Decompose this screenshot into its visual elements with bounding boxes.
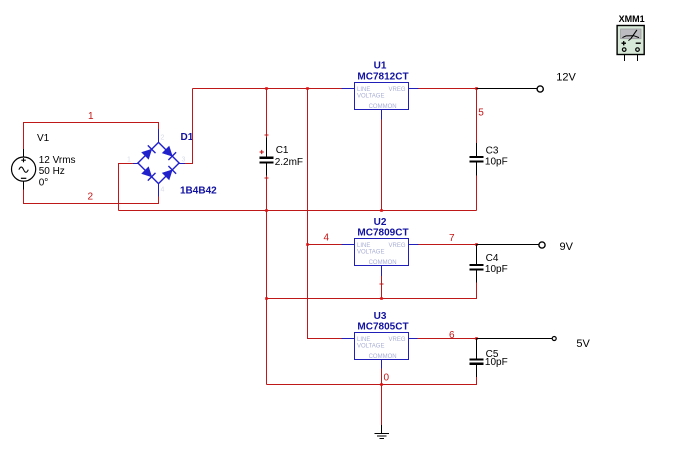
junction node0 U1 common at rail: [380, 209, 383, 212]
wire ground drop: [381, 385, 383, 426]
terminal 12V: [537, 86, 543, 92]
capacitor C5: [470, 339, 484, 378]
svg-text:50 Hz: 50 Hz: [39, 166, 65, 177]
svg-text:2: 2: [161, 135, 165, 142]
svg-text:COMMON: COMMON: [369, 260, 397, 266]
diode left-top of bridge D1: [142, 145, 156, 159]
bridge rectifier D1: [133, 129, 185, 197]
svg-text:XMM1: XMM1: [619, 14, 645, 24]
wire node 4 branch to U2 input: [308, 244, 342, 246]
wire 12V output black: [477, 88, 538, 90]
svg-text:VOLTAGE: VOLTAGE: [357, 344, 384, 350]
svg-text:1B4B42: 1B4B42: [180, 186, 217, 197]
svg-text:1: 1: [88, 111, 94, 122]
svg-text:12 Vrms: 12 Vrms: [39, 155, 76, 166]
svg-text:7: 7: [449, 233, 455, 244]
svg-text:3: 3: [182, 157, 186, 164]
svg-text:U2: U2: [374, 217, 387, 228]
svg-text:C1: C1: [276, 145, 289, 156]
diode bottom-right of bridge D1: [162, 166, 176, 180]
svg-text:5: 5: [478, 108, 484, 119]
wire node 1: [24, 123, 159, 149]
svg-text:VOLTAGE: VOLTAGE: [357, 94, 384, 100]
wire ground rail node 0: [267, 377, 477, 385]
svg-text:4: 4: [324, 232, 330, 243]
wire top rail unregulated DC: [193, 88, 342, 90]
wire C1 top lead: [266, 89, 268, 138]
svg-text:VREG: VREG: [388, 87, 405, 93]
svg-text:V1: V1: [37, 133, 50, 144]
terminal 5V: [552, 337, 556, 341]
svg-text:12V: 12V: [556, 72, 576, 84]
wire common rail node 0: [119, 210, 477, 212]
wire node 3 vertical to U2 U3 inputs: [308, 89, 342, 339]
svg-text:VREG: VREG: [388, 337, 405, 343]
voltage regulator U2: [342, 239, 419, 277]
multimeter XMM1: [617, 26, 644, 62]
svg-text:D1: D1: [181, 132, 194, 143]
voltage regulator U3: [342, 333, 418, 369]
wire C1 bottom lead: [266, 175, 268, 210]
svg-text:LINE: LINE: [357, 87, 370, 93]
wire U3 output node 6: [418, 338, 477, 340]
junction node4 at U2 input branch: [306, 243, 309, 246]
terminal 9V: [539, 242, 545, 248]
svg-text:C4: C4: [486, 253, 499, 264]
svg-text:U1: U1: [374, 61, 387, 72]
wire U1 output node 5: [419, 88, 477, 90]
svg-text:LINE: LINE: [357, 243, 370, 249]
svg-text:6: 6: [449, 330, 455, 341]
svg-text:9V: 9V: [560, 241, 574, 253]
svg-text:MC7809CT: MC7809CT: [357, 227, 408, 238]
wire 9V output black: [477, 244, 539, 246]
junction node6 at C5 top: [475, 337, 478, 340]
svg-text:10pF: 10pF: [485, 157, 508, 168]
capacitor C1: [260, 138, 274, 176]
wire U1 common pin to rail: [381, 120, 383, 211]
svg-text:COMMON: COMMON: [369, 354, 397, 360]
svg-text:5V: 5V: [576, 338, 590, 350]
wire bridge right to top rail riser: [185, 89, 193, 164]
svg-text:0°: 0°: [39, 178, 49, 189]
wire node 0 vertical C1 column: [266, 211, 268, 385]
wire U2 common pin lead: [381, 276, 383, 299]
svg-text:VREG: VREG: [388, 243, 405, 249]
svg-text:0: 0: [384, 373, 390, 384]
junction node7 at C4 top: [475, 243, 478, 246]
svg-text:1: 1: [127, 157, 131, 164]
diode top-right of bridge D1: [162, 146, 176, 160]
svg-text:COMMON: COMMON: [369, 104, 397, 110]
svg-text:C3: C3: [486, 145, 499, 156]
wire U2 output node 7: [419, 244, 477, 246]
junction node3 at mid vertical: [306, 87, 309, 90]
wire C3 top lead node 5: [476, 89, 478, 143]
svg-text:LINE: LINE: [357, 337, 370, 343]
wire endpoint tick U2 common: [380, 283, 384, 285]
svg-text:4: 4: [161, 187, 165, 194]
wire endpoint tick C1 bottom: [265, 177, 269, 179]
ground: [375, 425, 390, 438]
junction node0 U2 common at C4 rail: [380, 297, 383, 300]
junction node0 ground drop at rail: [380, 383, 383, 386]
svg-text:VOLTAGE: VOLTAGE: [357, 250, 384, 256]
svg-text:10pF: 10pF: [485, 357, 508, 368]
wire node 0 from bridge left: [119, 164, 134, 211]
svg-text:2: 2: [88, 192, 94, 203]
svg-text:10pF: 10pF: [485, 264, 508, 275]
capacitor C3: [470, 143, 484, 176]
wire U3 common pin lead node 0: [381, 369, 383, 385]
junction node0 C1 column at common rail: [265, 209, 268, 212]
svg-text:MC7812CT: MC7812CT: [357, 71, 408, 82]
wire endpoint tick C1 top: [265, 134, 269, 136]
capacitor C4: [470, 245, 484, 283]
wire C4 bottom rail node 0: [267, 283, 477, 299]
svg-text:U3: U3: [374, 311, 387, 322]
wire node 2: [24, 190, 159, 204]
junction node3 at C1 top: [265, 87, 268, 90]
diode left-bottom of bridge D1: [142, 167, 156, 181]
svg-text:MC7805CT: MC7805CT: [357, 322, 408, 333]
polarity plus of C1: [260, 150, 264, 154]
voltage regulator U1: [342, 83, 419, 120]
junction node0 C1 column at C4 rail: [265, 297, 268, 300]
junction node5 at C3 top: [475, 87, 478, 90]
svg-text:2.2mF: 2.2mF: [275, 157, 303, 168]
wire C3 bottom lead: [476, 176, 478, 211]
wire 5V output black: [477, 338, 553, 340]
AC source V1: [12, 149, 36, 190]
